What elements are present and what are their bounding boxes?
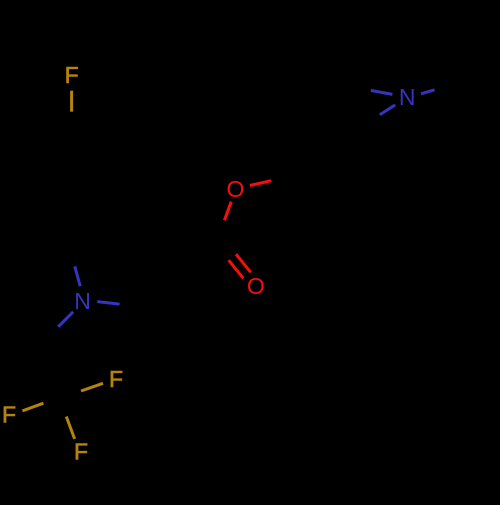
wire C2-N1 carbon half: [120, 304, 142, 307]
wire CF3-F4 carbon half: [60, 391, 82, 397]
svg-text:O: O: [247, 273, 265, 299]
bond N2-C4az half: [380, 105, 395, 115]
wire C6-C7 ring bond: [17, 161, 22, 218]
wire C4az-N2 carbon half: [363, 115, 380, 126]
wire C4-C5 ring bond: [72, 133, 126, 165]
svg-text:N: N: [74, 288, 91, 314]
bond C=O double line B oxygen half: [229, 260, 244, 278]
bond F4 half: CF3 upper-right: [81, 383, 103, 391]
bond C=O double line A oxygen half: [236, 254, 251, 272]
wire C7a-N1 carbon half: [69, 247, 74, 267]
wire CH2-CF3 bond: [43, 342, 59, 397]
wire CF3-F2 carbon half: [43, 397, 59, 403]
nitrogen half-bonds (blue): [58, 90, 434, 327]
fluorine half-bonds (gold): [22, 91, 103, 439]
wire C2az-N2 carbon half: [349, 86, 371, 90]
svg-text:F: F: [74, 439, 88, 465]
bond F2 half: CF3 left: [22, 403, 43, 411]
wire C=O double bond carbon halves: [221, 236, 236, 254]
oxygen half-bonds (red): [224, 181, 271, 279]
svg-text:F: F: [109, 366, 123, 392]
bond O1-C(=O) half (ester O to carbonyl C): [224, 202, 231, 221]
bond N2-CH3 half: [421, 90, 435, 94]
wire C3az-C4az ring bond: [306, 117, 363, 126]
wire C3-C2 ring bond: [142, 262, 160, 307]
wire C5-C6 ring bond: [22, 133, 72, 161]
wire C3a-C3 ring bond: [121, 222, 160, 262]
wire CF3-F3 carbon half: [60, 397, 67, 417]
wire C3-C(=O) bond: [160, 239, 218, 262]
svg-text:F: F: [65, 62, 79, 88]
bond O1-CH2 half (ester O to methylene): [250, 181, 271, 186]
bond F1 half: aromatic C-F: [70, 91, 73, 112]
wire CH2-C3az bond: [292, 117, 306, 175]
wire N2-CH3 carbon half: [435, 86, 449, 90]
svg-text:N: N: [399, 84, 416, 110]
wire C3az-C2az ring bond: [306, 86, 349, 117]
svg-text:O: O: [226, 176, 244, 202]
wire N1-CH2 carbon half: [43, 327, 58, 342]
wire C7-C7a ring bond: [17, 218, 69, 247]
bond N1-CH2 half: [58, 312, 73, 327]
wire O1-CH2 carbon half: [271, 176, 292, 181]
wire C(=O)-O1 carbon half: [218, 220, 225, 239]
bond N2-C2az half: [371, 90, 393, 94]
bond N1-C2 half: [97, 302, 119, 305]
bond F3 half: CF3 bottom: [66, 417, 74, 439]
wire C7a-C3a ring bond: [69, 222, 121, 247]
svg-text:F: F: [2, 402, 16, 428]
wire: carbon skeleton (black, invisible on black bg): [17, 86, 448, 417]
wire C5-F1 carbon half: [70, 112, 73, 133]
bond N1-C7a half: [75, 266, 80, 286]
wire C3a-C4 ring bond: [121, 165, 126, 222]
